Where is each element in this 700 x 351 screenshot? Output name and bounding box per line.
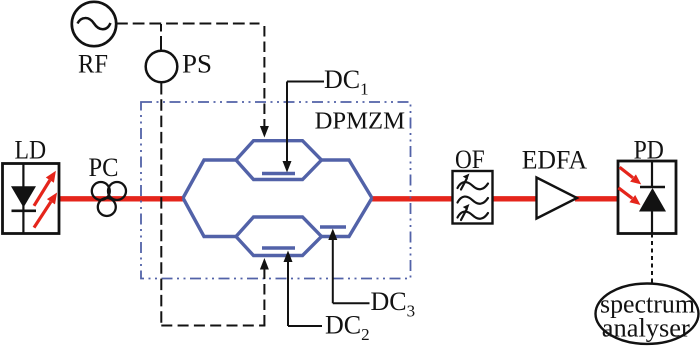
svg-text:DPMZM: DPMZM <box>315 108 406 135</box>
svg-text:DC3: DC3 <box>371 287 416 321</box>
svg-text:PD: PD <box>634 135 664 165</box>
svg-text:analyser: analyser <box>602 313 690 342</box>
svg-text:PC: PC <box>89 152 119 182</box>
svg-text:DC2: DC2 <box>325 311 370 345</box>
svg-text:OF: OF <box>455 144 485 174</box>
svg-text:PS: PS <box>182 49 212 79</box>
svg-text:LD: LD <box>15 135 47 165</box>
svg-text:RF: RF <box>78 49 108 79</box>
svg-text:EDFA: EDFA <box>522 145 587 175</box>
svg-text:DC1: DC1 <box>324 65 369 99</box>
